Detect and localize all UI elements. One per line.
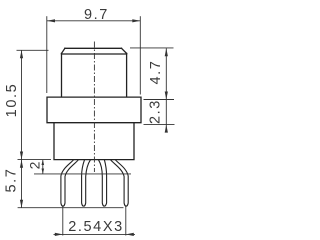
knob chamfer base line [62,53,127,55]
ext line pin1 center [62,207,64,236]
ext line 9.7 left [46,16,48,93]
svg-text:2: 2 [27,161,43,169]
arrow 9.7 right [132,19,140,22]
body [54,123,134,160]
dim line right chain [165,48,167,132]
svg-text:2.3: 2.3 [148,99,164,124]
arrow 2 bottom [42,169,45,174]
pin 4 [111,160,129,206]
arrow 2.3 bottom outside [165,125,168,133]
pin 2 [82,160,91,206]
arrow 5.7 bottom [20,200,23,208]
ext line right top (knob top) [130,47,174,49]
ext line 9.7 right [139,16,141,94]
svg-text:2.54X3: 2.54X3 [68,219,124,235]
ext line pin tip plane [18,207,124,209]
knob top face [65,47,122,49]
pin 3 [99,160,107,206]
arrow 10.5 top [20,50,23,58]
knob chamfer left [62,48,65,53]
arrow 2 top [42,160,45,165]
ext line pin4 center [125,207,127,236]
pin 1 [61,160,78,206]
ext line left top (knob top) [17,49,49,51]
dim line 9.7 [47,20,140,22]
ext line right flange bottom [144,124,175,126]
dim line left chain [21,50,23,207]
arrow 2.54 right [126,233,134,236]
arrow 2.54 left [55,233,63,236]
svg-text:5.7: 5.7 [4,168,20,193]
arrow 4.7 top [165,48,168,56]
knob right edge [126,53,128,96]
knob chamfer right [122,48,127,53]
arrow 9.7 left [47,19,55,22]
flange [47,97,141,123]
ext line left middle (body bottom) [18,159,52,161]
dim line 2 [42,160,44,174]
arrow 5.7 top [20,160,23,168]
ext line right flange top [144,99,175,101]
knob left edge [61,53,63,96]
svg-text:4.7: 4.7 [148,60,164,85]
svg-text:9.7: 9.7 [84,7,109,23]
dim line 2.54X3 [54,233,136,235]
arrow 4.7 bottom [165,92,168,100]
ext line pin bend [34,173,131,175]
center line [93,42,95,173]
arrow 10.5 bottom [20,152,23,160]
svg-text:10.5: 10.5 [4,83,20,118]
